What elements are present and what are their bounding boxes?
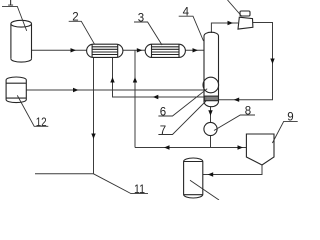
svg-text:1: 1 — [7, 0, 13, 9]
svg-text:11: 11 — [134, 184, 145, 196]
svg-text:12: 12 — [36, 117, 47, 129]
svg-text:7: 7 — [160, 125, 166, 137]
svg-text:8: 8 — [245, 105, 251, 117]
svg-text:4: 4 — [183, 7, 190, 19]
svg-text:9: 9 — [287, 112, 293, 124]
svg-text:2: 2 — [72, 12, 78, 24]
svg-text:6: 6 — [160, 106, 166, 118]
svg-text:3: 3 — [138, 12, 144, 24]
